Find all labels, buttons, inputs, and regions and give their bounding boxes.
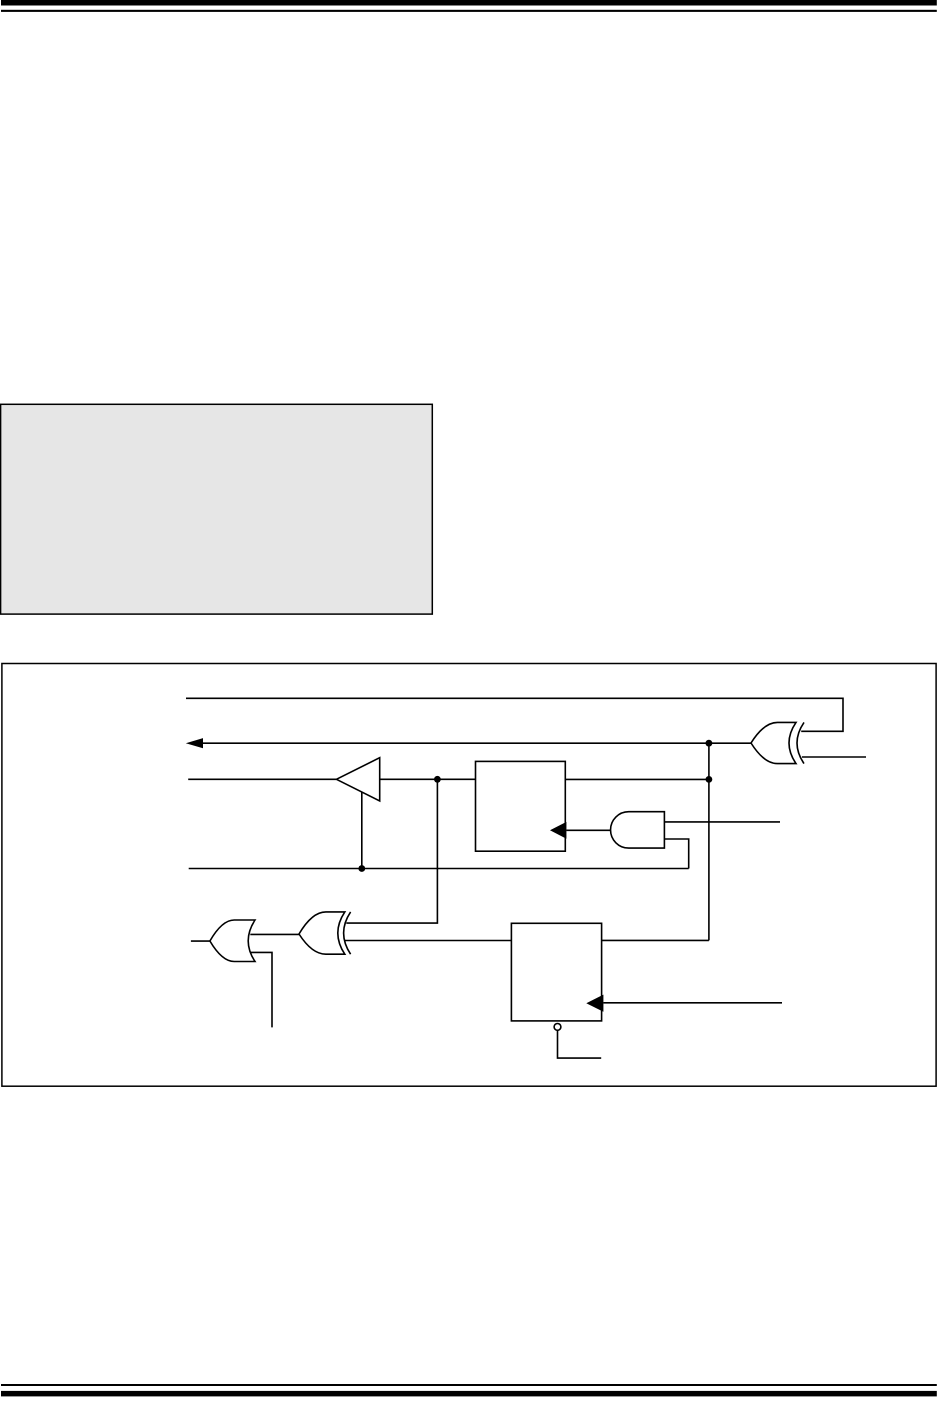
latch Q2	[511, 923, 601, 1021]
latch Q1 clock triangle	[550, 822, 566, 839]
latch Q2 clock triangle	[586, 995, 603, 1012]
latch Q1	[476, 761, 566, 851]
wire node A to xor U5	[346, 779, 437, 923]
buffer U2	[336, 758, 379, 801]
node B junction dot	[706, 776, 713, 783]
wire Q2 bubble stub	[558, 1030, 602, 1058]
arrowhead	[186, 738, 203, 748]
wire arrowed output net	[202, 742, 751, 744]
xor gate U1	[751, 722, 796, 763]
node A junction dot	[434, 776, 441, 783]
wire and-gate output to Q1 clock	[566, 829, 611, 831]
figure frame	[2, 664, 936, 1087]
wire xor U5 bottom input to latch Q2	[345, 940, 512, 942]
wire Q1 output net	[565, 778, 709, 780]
wire U4 bottom input	[251, 952, 272, 1027]
xor gate U1 outer arc	[797, 722, 804, 763]
or gate U4	[210, 920, 255, 962]
wire vertical net x709	[708, 743, 710, 940]
wire top feedback net	[186, 698, 843, 731]
xor gate U5 outer arc	[344, 912, 351, 954]
wire buffer enable	[361, 792, 363, 868]
and gate U3	[611, 812, 665, 848]
wire horizontal enable net	[189, 868, 689, 870]
node D junction dot	[358, 865, 365, 872]
wire Q2 clock input stub	[603, 1002, 782, 1004]
wire Q2 output to net	[602, 939, 709, 941]
footer bar	[1, 1391, 937, 1397]
wire U4 output stub	[191, 940, 210, 942]
xor gate U5	[299, 912, 345, 954]
wire U3 bottom input	[664, 839, 688, 869]
wire U3 top input stub	[664, 821, 780, 823]
wire into buffer	[188, 778, 336, 780]
header bar	[1, 0, 937, 6]
note box	[1, 404, 433, 614]
node C junction dot	[706, 740, 713, 747]
wire or U4 to xor U5	[250, 933, 299, 935]
inverter bubble on Q2	[554, 1024, 561, 1031]
header rule	[1, 10, 937, 12]
footer rule	[1, 1384, 937, 1386]
wire buffer to latch Q1	[380, 778, 476, 780]
wire U1 bottom input stub	[802, 756, 866, 758]
